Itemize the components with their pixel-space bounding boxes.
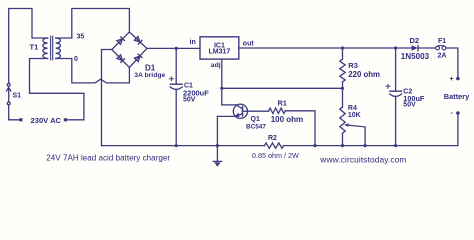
svg-text:R4: R4 bbox=[348, 105, 357, 112]
svg-text:10K: 10K bbox=[348, 112, 361, 119]
svg-text:50V: 50V bbox=[183, 97, 196, 104]
terminal square AC right bbox=[64, 118, 67, 121]
svg-text:LM317: LM317 bbox=[209, 49, 231, 56]
switch S1 bbox=[7, 83, 11, 104]
transistor Q2 : Q1 BC547 bbox=[217, 104, 268, 145]
bridge diode bottom-right bbox=[134, 54, 142, 62]
wire bridge left vertex to ground rail bbox=[102, 50, 112, 146]
bridge D1 diamond bbox=[112, 32, 147, 68]
svg-text:3A bridge: 3A bridge bbox=[134, 72, 165, 79]
diode D2 bbox=[412, 45, 418, 50]
svg-text:Battery: Battery bbox=[444, 92, 470, 101]
svg-text:100 ohm: 100 ohm bbox=[271, 115, 303, 124]
svg-text:230V AC: 230V AC bbox=[31, 116, 62, 125]
svg-text:220 ohm: 220 ohm bbox=[348, 70, 380, 79]
resistor R3 bbox=[340, 48, 345, 88]
capacitor C1 bbox=[169, 48, 182, 145]
wire bridge right vertex to IC in bbox=[147, 47, 200, 49]
svg-text:F1: F1 bbox=[438, 38, 446, 45]
svg-text:D2: D2 bbox=[410, 36, 420, 45]
svg-text:2A: 2A bbox=[438, 53, 447, 60]
svg-text:adj: adj bbox=[211, 62, 221, 69]
svg-text:T1: T1 bbox=[30, 43, 39, 52]
bridge diode top-right bbox=[134, 37, 142, 45]
potentiometer R4 bbox=[340, 88, 365, 145]
svg-text:R2: R2 bbox=[268, 135, 277, 142]
op-amp U1 : IC1 LM317 regulator box bbox=[200, 37, 239, 59]
node battery plus bbox=[456, 77, 460, 81]
wire bottom rail left of R2 bbox=[102, 145, 265, 147]
node junction dots bbox=[175, 46, 398, 147]
svg-text:in: in bbox=[190, 39, 196, 46]
capacitor C2 bbox=[386, 48, 402, 146]
wire secondary 0 tap to bridge bottom (with hop) bbox=[56, 59, 130, 83]
svg-text:0: 0 bbox=[74, 56, 78, 63]
transformer T1 core bbox=[50, 36, 52, 60]
bridge diode top-left bbox=[117, 37, 125, 45]
wire S1 to AC terminal bbox=[9, 105, 20, 120]
terminal square AC left bbox=[19, 118, 22, 121]
transformer T1 primary coil bbox=[43, 38, 48, 59]
svg-text:R1: R1 bbox=[278, 99, 287, 108]
svg-text:BC547: BC547 bbox=[246, 123, 266, 130]
svg-text:24V 7AH lead acid battery char: 24V 7AH lead acid battery charger bbox=[46, 153, 170, 162]
wire adj pin down bbox=[221, 59, 223, 105]
wire F1 to battery plus bbox=[446, 48, 458, 77]
svg-text:35: 35 bbox=[77, 34, 85, 41]
svg-text:-: - bbox=[451, 110, 454, 117]
transformer T1 secondary coil bbox=[56, 38, 61, 59]
wire secondary 35 tap to bridge top bbox=[56, 9, 130, 39]
wire bottom rail right of R2 bbox=[284, 115, 458, 146]
resistor R1 bbox=[269, 108, 315, 146]
fuse F1 bbox=[436, 45, 446, 50]
svg-text:R3: R3 bbox=[348, 61, 358, 70]
wire primary top loop bbox=[9, 9, 48, 84]
wire AC terminal to primary bottom bbox=[30, 59, 84, 120]
svg-text:+: + bbox=[450, 76, 454, 83]
wire adj to R3/R4 junction bbox=[222, 87, 343, 89]
svg-text:50V: 50V bbox=[403, 102, 416, 109]
wire D2 to F1 bbox=[418, 47, 436, 49]
bridge diode bottom-left bbox=[117, 55, 125, 63]
node battery minus bbox=[456, 111, 460, 115]
svg-text:0.85 ohm / 2W: 0.85 ohm / 2W bbox=[252, 151, 299, 160]
svg-text:Q1: Q1 bbox=[251, 116, 260, 123]
svg-text:1N5003: 1N5003 bbox=[401, 52, 430, 61]
ground bbox=[213, 146, 221, 167]
svg-text:www.circuitstoday.com: www.circuitstoday.com bbox=[319, 154, 406, 164]
svg-text:out: out bbox=[243, 41, 255, 48]
resistor R2 bbox=[265, 143, 284, 148]
wire IC out rail bbox=[239, 47, 412, 49]
svg-text:S1: S1 bbox=[13, 93, 22, 100]
